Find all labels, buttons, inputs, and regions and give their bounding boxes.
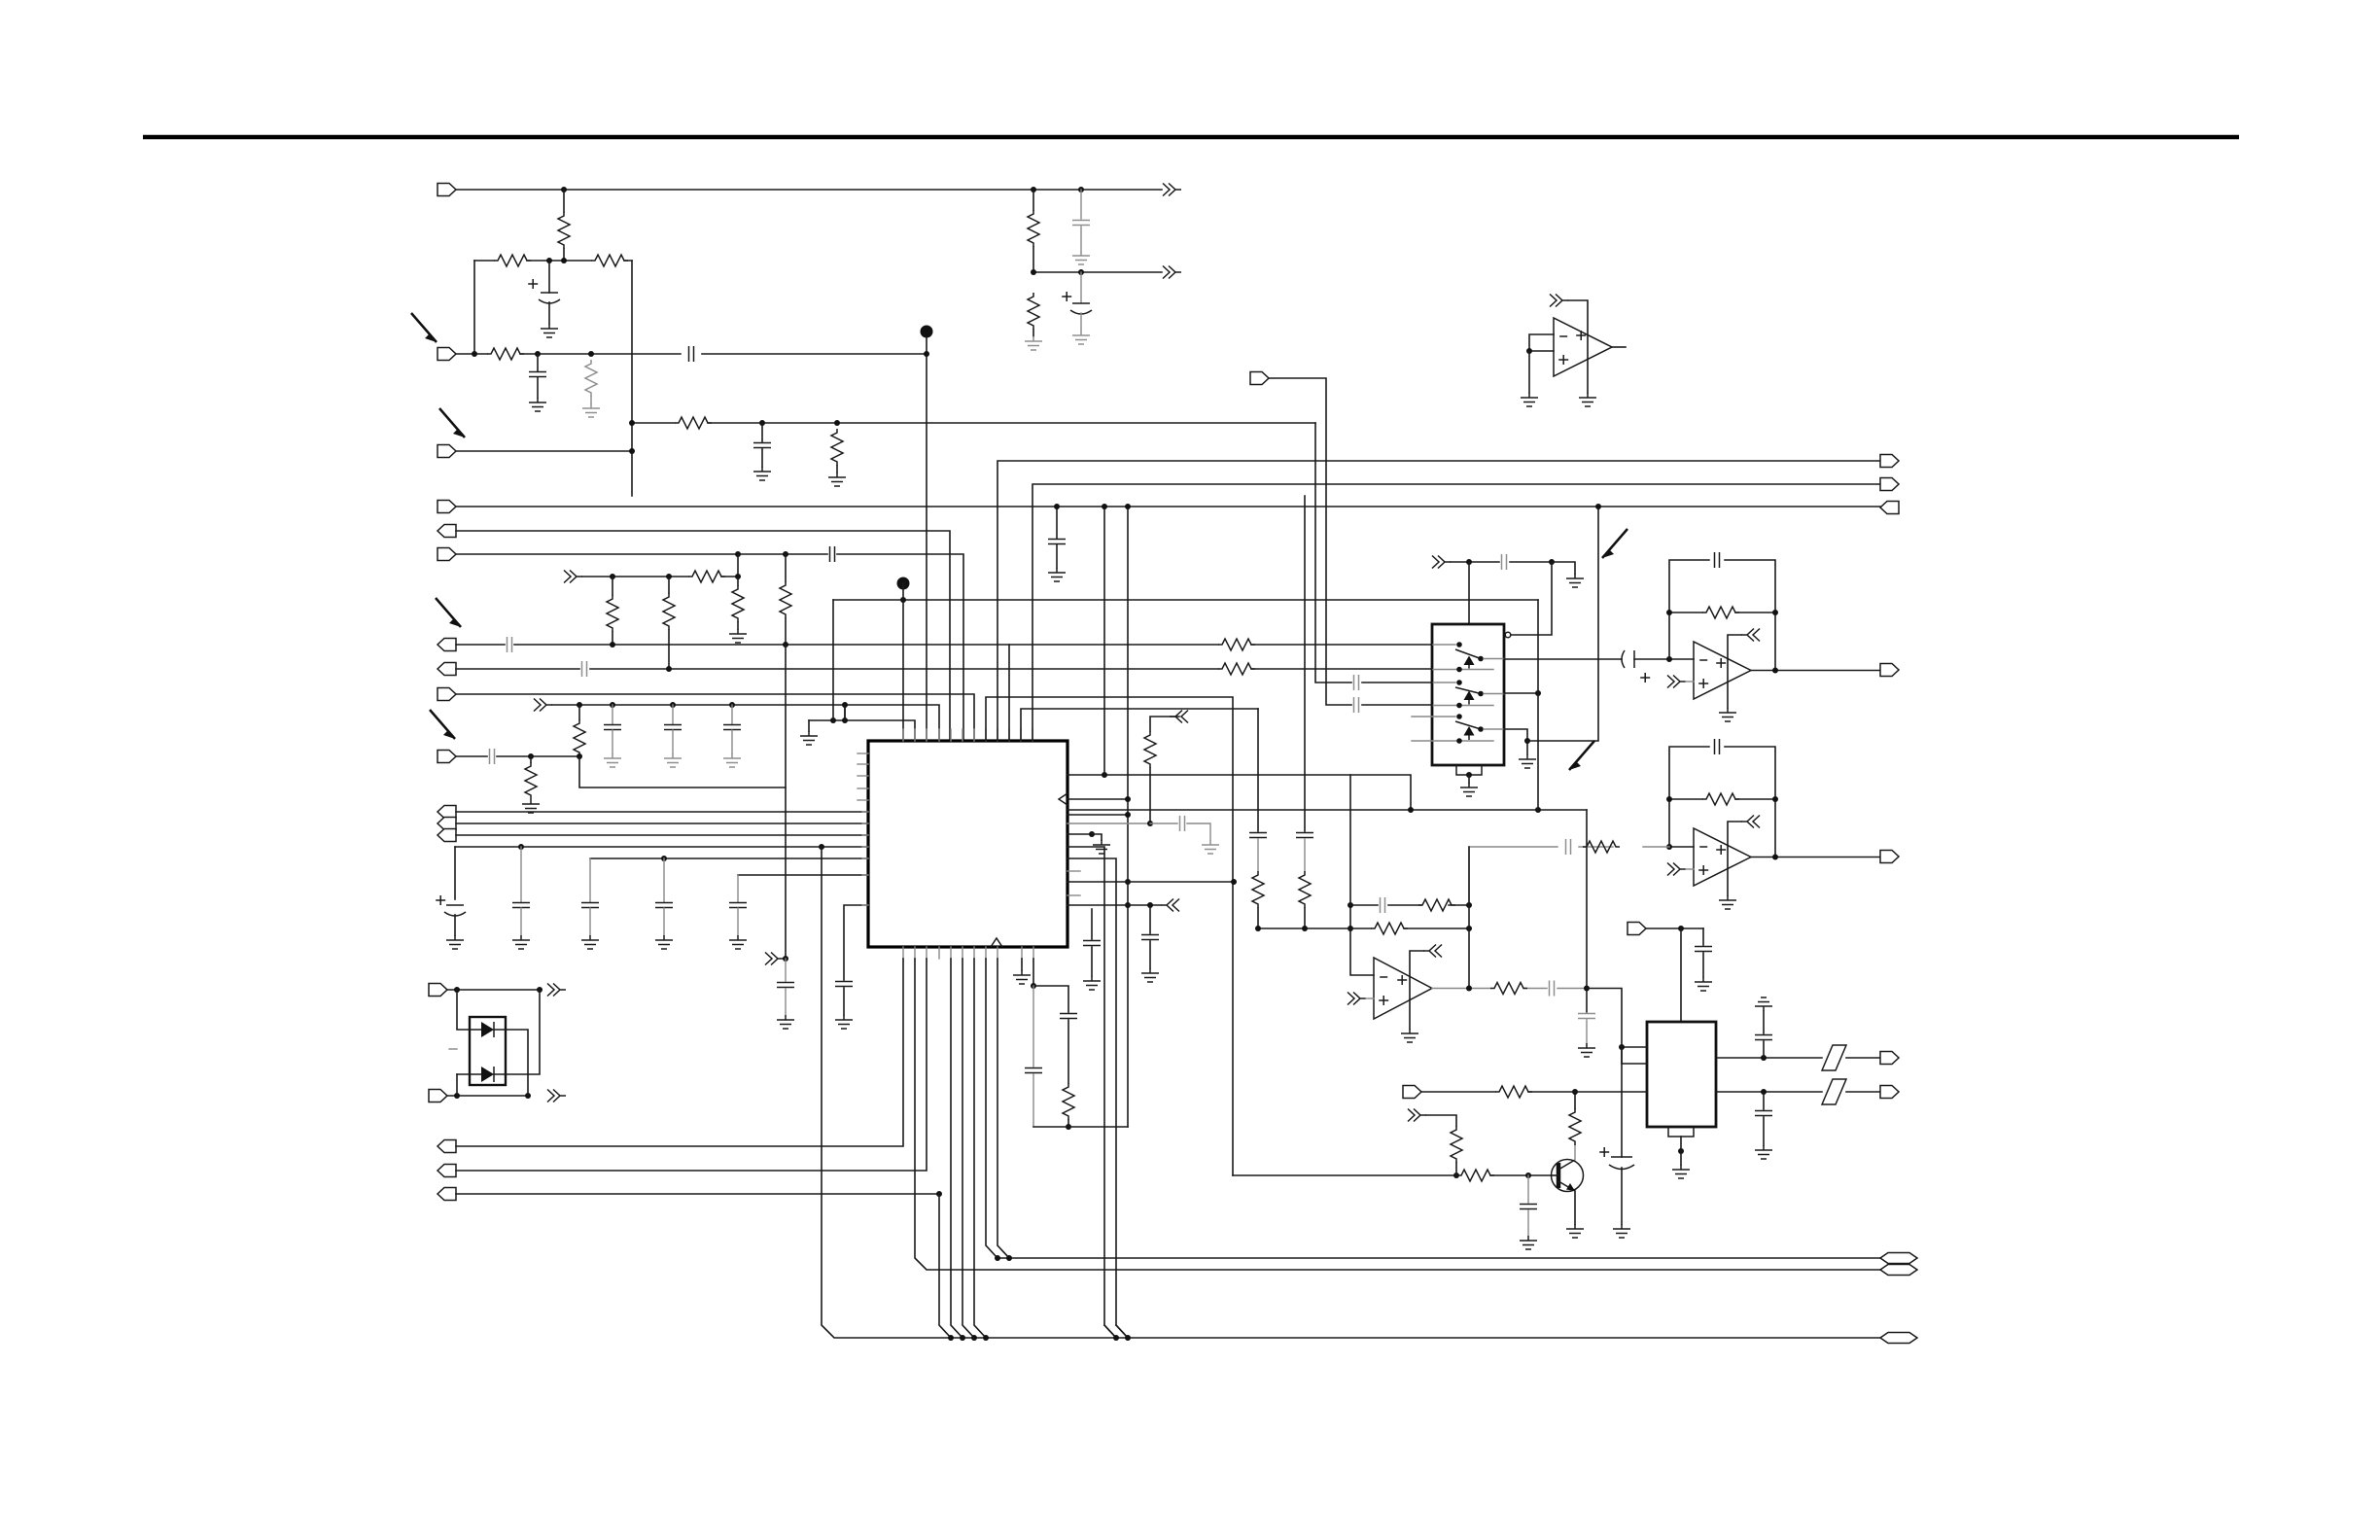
connector J30 output (1880, 1052, 1899, 1065)
op-amp U3 (1694, 642, 1751, 699)
resistor R29v (1569, 1108, 1581, 1145)
connector J9 input (437, 688, 456, 701)
wire (1421, 1091, 1647, 1093)
wire (1021, 709, 1258, 741)
feedback capacitor C30 (1669, 560, 1775, 659)
wire (1269, 378, 1432, 705)
resistor R31v (1032, 190, 1034, 210)
ground (729, 629, 747, 643)
wire (1552, 562, 1575, 574)
wire inverting in (1350, 905, 1374, 975)
wire pin y871 (1067, 847, 1116, 1338)
ground (1401, 1029, 1418, 1042)
wire pin y921 (1067, 894, 1080, 896)
off-page chevron (1550, 295, 1568, 307)
wire (494, 990, 540, 1074)
resistor R9v (732, 585, 744, 622)
wire (456, 822, 868, 824)
wire (447, 1095, 528, 1097)
pin marker input (1059, 793, 1067, 805)
wire inputs tied (1529, 334, 1554, 351)
resistor R3 (591, 255, 628, 266)
slash polarity mark (1822, 1079, 1846, 1104)
wire (1451, 561, 1552, 563)
connector J17 input (429, 984, 447, 997)
ground (729, 935, 747, 949)
wire pin (1622, 1047, 1647, 1064)
bus connector J23 (1880, 1265, 1917, 1276)
resistor R32v (1028, 293, 1039, 330)
wire (997, 959, 1009, 1258)
off-page chevron (1667, 863, 1686, 876)
wire data bus A (986, 959, 1880, 1258)
wire output1 net (1504, 658, 1622, 660)
resistor R13 (1218, 639, 1255, 650)
wire (456, 811, 868, 813)
wire (1304, 496, 1306, 831)
resistor R4 (487, 348, 524, 360)
capacitor C15 (589, 858, 591, 902)
wire (1349, 775, 1351, 905)
wire (1032, 986, 1034, 1067)
resistor R28v (1451, 1126, 1462, 1163)
capacitor C9 (612, 705, 613, 724)
wire (1104, 1325, 1116, 1338)
wire (1315, 423, 1432, 682)
ground (1566, 574, 1584, 587)
ground (541, 324, 558, 337)
wire (986, 697, 1233, 1175)
wire (844, 705, 846, 717)
wire collector (1574, 1145, 1576, 1160)
wire data bus C (822, 847, 1880, 1338)
capacitor C5 (1056, 507, 1058, 539)
wire right loop (631, 261, 633, 496)
wire (1468, 775, 1470, 783)
ground (1719, 895, 1736, 909)
off-page chevron (547, 984, 566, 997)
ground flipped (1755, 997, 1772, 1011)
ground (522, 799, 540, 813)
bus connector J22 (1880, 1253, 1917, 1264)
wire output (1432, 988, 1587, 990)
wire pin y858 (1067, 833, 1092, 835)
wire (1586, 810, 1588, 1012)
wire (582, 576, 738, 577)
wire (456, 189, 1162, 191)
resistor R14 (1218, 663, 1255, 675)
node (561, 187, 567, 192)
ground (604, 753, 621, 767)
resistor R17 pullup (1150, 717, 1179, 731)
op-amp U5 power (1423, 945, 1442, 958)
wire (1587, 989, 1622, 1048)
wire cap row 1 (455, 846, 868, 848)
resistor R18v (1063, 1083, 1074, 1120)
capacitor C8 (582, 661, 587, 677)
off-page chevron VDD bus (534, 699, 552, 712)
ground (664, 753, 682, 767)
capacitor C12 (490, 749, 495, 764)
wire (1150, 822, 1177, 824)
wire (456, 1074, 458, 1096)
wire (1149, 905, 1151, 933)
capacitor C39 (1695, 947, 1712, 952)
ground (1578, 1043, 1595, 1057)
wire net to U5 (1258, 927, 1350, 929)
connector J28 input (1627, 923, 1646, 935)
wire (552, 705, 939, 741)
op-amp U5 (1374, 958, 1432, 1019)
page rule (143, 135, 2239, 140)
capacitor C16 (663, 858, 665, 902)
capacitor C4 (761, 423, 763, 442)
wire output2 net (1504, 692, 1538, 694)
capacitor C25 (1025, 1068, 1042, 1073)
wire (1634, 658, 1694, 660)
transistor Q1 (1552, 1160, 1584, 1192)
wire (974, 959, 986, 1338)
ground (512, 935, 530, 949)
capacitor C36 (1249, 833, 1267, 838)
wire (456, 450, 632, 452)
ground (1093, 840, 1110, 854)
capacitor C23 (1091, 909, 1093, 939)
wire cap row 3 (738, 874, 868, 876)
capacitor C7 (507, 637, 512, 652)
wire emitter (1574, 1191, 1576, 1224)
capacitor C3 (689, 346, 694, 362)
connector J15 output (1880, 478, 1899, 491)
op-amp U4 (1694, 828, 1751, 886)
connector J27 output (1880, 851, 1899, 863)
off-page chevron (1161, 899, 1179, 912)
op-amp U4 power (1741, 816, 1760, 828)
wire (456, 834, 868, 836)
connector J13 output (437, 829, 456, 842)
wire (1510, 562, 1552, 635)
wire base net (1233, 1174, 1552, 1176)
wire (1468, 562, 1470, 624)
feedback resistor R19 (1669, 612, 1775, 670)
wire (456, 959, 927, 1171)
wire (456, 554, 963, 741)
wire pin y883 (1067, 858, 1128, 1338)
op-amp U3 power (1741, 629, 1760, 642)
connector J7 output (437, 639, 456, 651)
ground (1613, 1224, 1630, 1238)
wire (1257, 709, 1259, 831)
wire (456, 694, 974, 741)
pin marker bottom (991, 938, 1002, 947)
connector J10 input (437, 751, 456, 763)
wire (1527, 507, 1598, 741)
DAC output 2 (1716, 1091, 1880, 1093)
wire pin net y833 (1067, 809, 1587, 811)
connector J11 output (437, 806, 456, 819)
connector J25 input (1250, 372, 1269, 385)
capacitor C38 (1527, 1175, 1529, 1203)
analog switch U2 (1432, 624, 1504, 765)
wire mid bus (833, 599, 1538, 601)
wire pin y822 (1067, 798, 1128, 800)
connector J26 output (1880, 664, 1899, 677)
wire (844, 705, 846, 720)
connector J20 output (437, 1165, 456, 1177)
connector J14 output (1880, 455, 1899, 468)
resistor R27 (1457, 1170, 1494, 1181)
wire (457, 1073, 481, 1075)
connector J21 output (437, 1188, 456, 1201)
resistor R21 (1583, 841, 1620, 853)
wire (1426, 1115, 1456, 1126)
ground rail under IC (809, 720, 915, 741)
arrow annotation (1602, 529, 1627, 558)
connector J12 output (437, 818, 456, 830)
resistor R6 (675, 417, 712, 429)
capacitor C6 (830, 546, 835, 562)
wire (632, 422, 1315, 424)
wire output (1751, 857, 1880, 858)
capacitor C2 (537, 354, 539, 371)
wire data bus B (915, 959, 1880, 1270)
wire (456, 668, 1432, 670)
off-page chevron control (1432, 556, 1451, 569)
arrow annotation (436, 598, 461, 627)
wire stub (1412, 740, 1432, 742)
resistor R2 (494, 255, 531, 266)
resistor R26v (1299, 871, 1311, 908)
connector J18 input (429, 1090, 447, 1102)
wire (1686, 868, 1694, 870)
ground (1072, 331, 1090, 344)
capacitor C13 electrolytic (454, 847, 456, 899)
off-page chevron (1170, 711, 1188, 723)
ground (753, 467, 771, 480)
wire (456, 644, 1432, 646)
ground (1083, 976, 1101, 990)
ground (777, 1015, 794, 1029)
resistor R7 (831, 429, 843, 466)
ground (1755, 1145, 1772, 1159)
capacitor C43 (1080, 190, 1082, 219)
resistor R1 (563, 190, 565, 212)
ground (1460, 783, 1478, 796)
wire (456, 1193, 939, 1195)
connector J6 input (437, 548, 456, 561)
capacitor C26 (1502, 554, 1507, 570)
off-page chevron (1163, 266, 1181, 279)
off-page chevron VCC (564, 571, 582, 583)
capacitor C11 (731, 705, 733, 724)
wire (926, 337, 927, 741)
wire vertical x1160 (1127, 507, 1129, 1127)
ground (835, 1015, 853, 1029)
wire pin y931 net (1067, 904, 1161, 906)
off-page chevron (1408, 1109, 1426, 1122)
bus connector J24 (1880, 1333, 1917, 1344)
capacitor C41 (1763, 1041, 1765, 1058)
wire (456, 531, 950, 741)
resistor R5 (585, 360, 597, 397)
wire resistor row (474, 260, 632, 262)
wire bus (456, 506, 1880, 507)
resistor R8 (688, 571, 725, 582)
DAC output 1 (1716, 1057, 1880, 1059)
wire (1686, 681, 1694, 682)
test point TP2 (897, 577, 910, 590)
feedback resistor R20 (1669, 799, 1775, 857)
connector J1 input (437, 184, 456, 196)
wire (579, 756, 786, 787)
wire pin net y797 (1067, 775, 1411, 810)
test point TP1 (921, 326, 933, 338)
capacitor C14 (520, 847, 522, 902)
wire pin y907 (1067, 881, 1234, 883)
wire left loop (473, 261, 475, 354)
wire pin y847 (1067, 822, 1150, 824)
wire stub (449, 1048, 457, 1050)
wire (902, 583, 904, 741)
capacitor C19 (785, 959, 787, 981)
ground (1025, 336, 1042, 350)
feedback capacitor C31 (1669, 747, 1775, 847)
connector J5 output (437, 525, 456, 538)
wire (456, 959, 903, 1146)
capacitor C24 (1060, 1014, 1077, 1019)
capacitor C20 (1578, 1014, 1595, 1019)
wire (939, 1194, 951, 1338)
wire (457, 990, 481, 1030)
off-page chevron (1163, 184, 1181, 196)
wire (1680, 928, 1682, 1022)
wire (1528, 351, 1530, 393)
node (546, 258, 552, 263)
off-page chevron (1347, 993, 1366, 1005)
resistor R25v (1252, 871, 1264, 908)
wire long net OUT2 (1032, 484, 1880, 741)
connector J8 output (437, 663, 456, 676)
wire (1468, 847, 1470, 988)
off-page chevron (1667, 676, 1686, 688)
wire output (1751, 670, 1880, 672)
ground (1579, 393, 1596, 406)
ground (828, 472, 846, 486)
connector J19 output (437, 1140, 456, 1153)
wire (1702, 928, 1704, 945)
wire pin (1622, 1046, 1647, 1048)
capacitor C37 (1296, 833, 1313, 838)
wire IC left pins (857, 752, 868, 754)
wire power (1568, 300, 1588, 393)
ground (446, 935, 464, 949)
capacitor C28 (1354, 697, 1359, 713)
resistor R24 (1490, 983, 1527, 995)
op-amp U7 unused (1554, 318, 1612, 376)
wire to node (832, 600, 834, 720)
wire pin y838 (1067, 814, 1128, 816)
ground (581, 935, 599, 949)
wire (447, 989, 540, 991)
switch box bottom pin (1456, 765, 1482, 775)
wire (456, 755, 579, 757)
DAC U6 (1647, 1022, 1716, 1127)
ground (1072, 251, 1090, 264)
switch contacts (1433, 645, 1493, 670)
diode D2 (481, 1067, 494, 1082)
capacitor C18 (844, 905, 868, 980)
wire IC bottom pins (902, 947, 904, 959)
ground (1520, 1236, 1537, 1249)
wire (1116, 1325, 1128, 1338)
wire (1366, 997, 1374, 999)
inverter bubble (1505, 632, 1511, 638)
resistor R10v (607, 595, 618, 632)
wire cap row 2 (590, 857, 868, 859)
capacitor C29 electrolytic (1622, 650, 1625, 668)
wire (494, 1030, 528, 1096)
connector J3 input (437, 445, 456, 458)
ground (529, 398, 546, 411)
resistor R16v (530, 756, 532, 762)
capacitor C42 (1763, 1092, 1765, 1109)
wire (1008, 645, 1010, 741)
slash polarity mark (1822, 1045, 1846, 1070)
wire (1032, 959, 1034, 986)
diode pack D1 D2 (470, 1017, 506, 1085)
capacitor C32 (1566, 839, 1571, 855)
resistor R12v (780, 581, 791, 618)
capacitor C44 electrolytic (1062, 292, 1071, 301)
ground (1141, 968, 1159, 982)
wire pin y896 (1067, 870, 1080, 872)
DAC bottom pin (1668, 1127, 1694, 1137)
wire inverting input net (1669, 846, 1694, 848)
wire (785, 645, 787, 959)
arrow annotation (439, 408, 465, 437)
wire (1646, 927, 1703, 929)
diode D1 (481, 1022, 494, 1037)
capacitor C21 (1180, 816, 1185, 831)
connector J4 input (437, 501, 456, 513)
wire (737, 554, 739, 585)
off-page chevron (547, 1090, 566, 1102)
resistor R15v (578, 705, 580, 719)
connector J29 input (1403, 1086, 1421, 1099)
capacitor C27 (1354, 675, 1359, 690)
wire output stub (1612, 346, 1626, 348)
off-page chevron (765, 953, 784, 965)
ground output3 (1504, 729, 1527, 754)
ground (655, 935, 673, 949)
ground (1566, 1224, 1584, 1238)
connector J31 output (1880, 1086, 1899, 1099)
ground (582, 403, 600, 417)
wire (1103, 507, 1105, 775)
IC U1 main codec (868, 741, 1067, 947)
capacitor C40 electrolytic (1621, 1047, 1623, 1157)
wire (1537, 600, 1539, 810)
connector J16 output (1880, 502, 1899, 514)
ground (723, 753, 741, 767)
ground (1521, 393, 1538, 406)
wire IC top pins (902, 729, 904, 741)
wire (1033, 986, 1068, 1012)
wire stub (1412, 716, 1432, 717)
wire (1092, 834, 1102, 840)
capacitor C1 electrolytic (548, 261, 550, 293)
feedback capacitor C33 with resistor R22 (1350, 904, 1469, 906)
